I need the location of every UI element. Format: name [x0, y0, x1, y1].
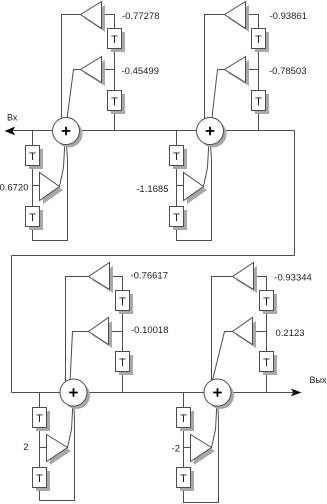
delay T (z^-1) lower, chain 1 [108, 91, 126, 115]
svg-text:T: T [119, 357, 126, 369]
wire: gain a1a output to summer S1 [62, 15, 81, 131]
svg-text:Вых: Вых [310, 375, 327, 385]
svg-text:T: T [36, 473, 43, 485]
wire: gain a1b output to summer S2 [205, 15, 225, 131]
svg-text:T: T [180, 413, 187, 425]
delay T (z^-1) upper, chain 2 [252, 29, 270, 53]
wire: between delays, node v1a [114, 50, 116, 70]
wire: node v1c down to second delay [122, 332, 124, 352]
wire: tap to gain bd input [184, 447, 191, 449]
wire: delay chain bottom to main line node [266, 373, 268, 393]
svg-text:-0.93344: -0.93344 [274, 272, 312, 283]
wire: gain a1d output to summer S4 [212, 277, 233, 393]
svg-text:T: T [111, 96, 118, 108]
wire: loop return to summer S4 [184, 393, 219, 503]
delay T second of input chain 1 [26, 207, 44, 231]
wire: node v1a down to second delay [114, 70, 116, 91]
amplifier a2d (0.2123) [233, 318, 257, 349]
summing junction S2 [197, 118, 227, 148]
amplifier bb (-1.1685) [184, 173, 208, 205]
wire: left vertical connector [11, 256, 13, 393]
wire: gain bc output to summer S3 [68, 393, 74, 448]
wire: between lower delays [183, 428, 185, 468]
wire: gain a2a output to summer S1 [66, 70, 81, 131]
wire: gain bb output to summer S2 [204, 131, 210, 187]
delay T (z^-1) upper, chain 3 [116, 291, 134, 315]
svg-text:T: T [111, 34, 118, 46]
delay T first of input chain 2 [170, 146, 188, 170]
delay T (z^-1) lower, chain 4 [260, 352, 278, 376]
amplifier a1c (-0.76617) [89, 263, 114, 294]
amplifier a2a (-0.45499) [81, 57, 106, 87]
wire: middle horizontal connector [12, 255, 295, 257]
summing junction S3 [60, 379, 90, 409]
delay T first of input chain 4 [177, 408, 195, 432]
wire: delay chain top to gain a1d input [254, 277, 267, 291]
svg-text:T: T [36, 413, 43, 425]
delay T (z^-1) upper, chain 4 [260, 291, 278, 315]
wire: bottom main line (Vyh) [12, 392, 296, 394]
wire: loop return to summer S1 [33, 131, 68, 241]
wire: main line down to delay T [183, 393, 185, 408]
svg-text:-0.76617: -0.76617 [131, 271, 169, 282]
wire: between lower delays [39, 428, 41, 468]
summing junction S1 [53, 118, 83, 148]
svg-text:-0.78503: -0.78503 [269, 66, 307, 77]
svg-text:0.2123: 0.2123 [276, 328, 305, 339]
svg-text:T: T [173, 212, 180, 224]
amplifier bc (2) [47, 435, 72, 466]
svg-text:0.6720: 0.6720 [0, 182, 29, 193]
svg-text:T: T [180, 473, 187, 485]
svg-text:-1.1685: -1.1685 [136, 184, 168, 195]
summing junction S4 [204, 379, 234, 409]
svg-text:T: T [119, 296, 126, 308]
wire: delay chain top to gain a1b input [246, 15, 259, 29]
output arrow (right) [291, 389, 302, 397]
wire: gain a2d output to summer S4 [210, 332, 233, 393]
svg-text:-0.93861: -0.93861 [270, 11, 308, 22]
svg-text:T: T [263, 357, 270, 369]
wire: node v1b down to second delay [258, 70, 260, 91]
svg-text:T: T [173, 151, 180, 163]
delay T (z^-1) upper, chain 1 [108, 29, 126, 53]
svg-text:-0.77278: -0.77278 [122, 11, 160, 22]
wire: between delays, node v1b [258, 50, 260, 70]
wire: right vertical connector [294, 131, 296, 256]
svg-text:T: T [263, 296, 270, 308]
svg-text:-2: -2 [172, 444, 180, 455]
wire: gain bd output to summer S4 [212, 393, 218, 448]
delay T second of input chain 3 [33, 468, 51, 492]
amplifier bd (-2) [191, 435, 216, 466]
wire: tap to gain bc input [40, 447, 47, 449]
wire: tap to gain a2c input [109, 331, 123, 333]
wire: delay chain bottom to main line node [122, 373, 124, 393]
delay T (z^-1) lower, chain 2 [252, 91, 270, 115]
wire: tap to gain a2b input [246, 69, 259, 71]
wire: tap to gain ba input [33, 185, 40, 187]
svg-text:-0.10018: -0.10018 [131, 325, 169, 336]
wire: gain a2b output to summer S2 [211, 70, 225, 131]
wire: between lower delays [32, 167, 34, 207]
svg-text:T: T [29, 151, 36, 163]
wire: gain a2c output to summer S3 [70, 332, 89, 393]
delay T second of input chain 2 [170, 207, 188, 231]
wire: tap to gain a2d input [253, 331, 267, 333]
amplifier a1d (-0.93344) [233, 263, 258, 294]
svg-text:T: T [255, 34, 262, 46]
wire: loop return to summer S3 [40, 393, 75, 501]
svg-text:2: 2 [23, 442, 28, 453]
wire: between lower delays [176, 167, 178, 207]
wire: main line down to delay T [39, 393, 41, 408]
svg-text:Вх: Вх [7, 113, 18, 123]
wire: main line down to delay T [32, 131, 34, 146]
delay T second of input chain 4 [177, 468, 195, 492]
delay T first of input chain 1 [26, 146, 44, 170]
amplifier a1b (-0.93861) [225, 2, 250, 33]
wire: tap to gain a2a input [102, 69, 115, 71]
wire: gain a1c output to summer S3 [66, 277, 89, 393]
wire: gain ba output to summer S1 [60, 131, 66, 187]
wire: between delays, node v1c [122, 311, 124, 332]
wire: delay chain bottom to main line node [258, 111, 260, 131]
wire: loop return to summer S2 [177, 131, 212, 241]
amplifier ba (0.6720) [40, 173, 64, 205]
amplifier a2b (-0.78503) [225, 57, 250, 87]
wire: delay chain top to gain a1a input [102, 15, 115, 29]
delay T (z^-1) lower, chain 3 [116, 352, 134, 376]
amplifier a1a (-0.77278) [81, 2, 106, 33]
wire: top main line (Vh) [13, 130, 295, 132]
amplifier a2c (-0.10018) [89, 318, 113, 349]
svg-text:T: T [29, 212, 36, 224]
wire: delay chain top to gain a1c input [110, 277, 123, 291]
delay T first of input chain 3 [33, 408, 51, 432]
svg-text:-0.45499: -0.45499 [122, 66, 160, 77]
wire: main line down to delay T [176, 131, 178, 146]
wire: tap to gain bb input [177, 185, 184, 187]
wire: delay chain bottom to main line node [114, 111, 116, 131]
svg-text:T: T [255, 96, 262, 108]
wire: between delays, node v1d [266, 311, 268, 332]
input arrow (left) [5, 127, 16, 136]
wire: node v1d down to second delay [266, 332, 268, 352]
